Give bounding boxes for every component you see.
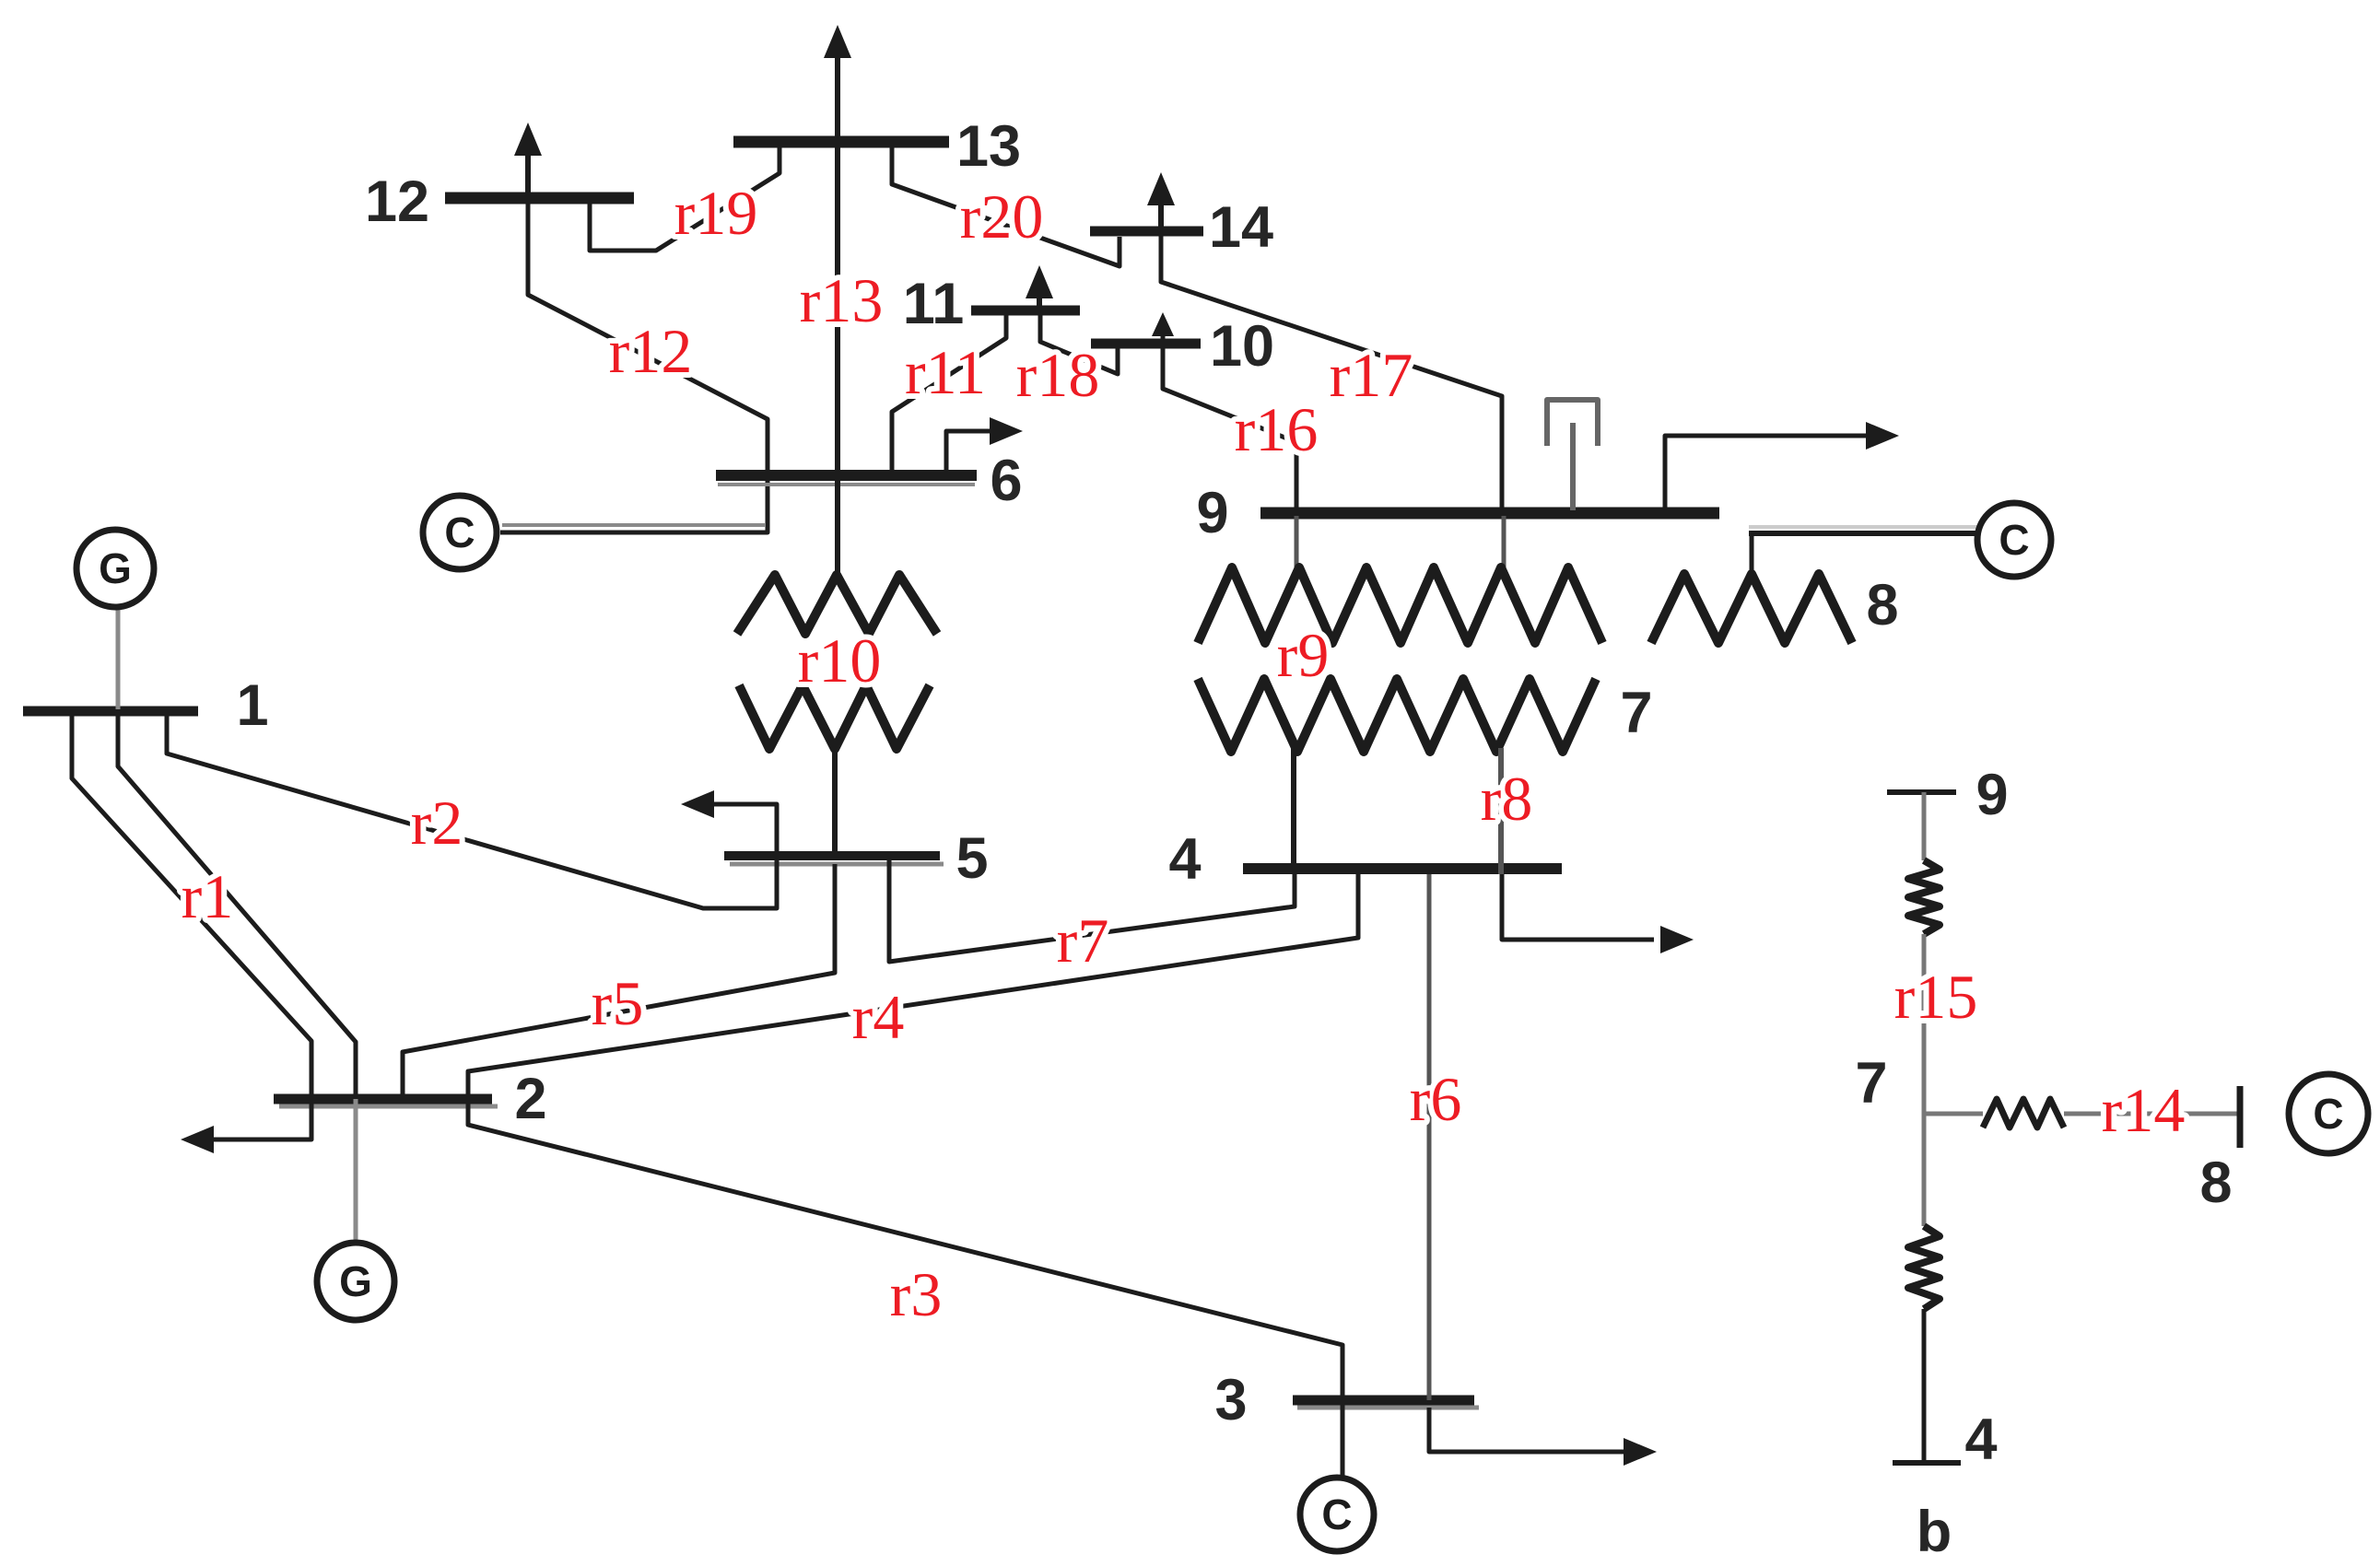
- svg-text:3: 3: [1214, 1368, 1247, 1432]
- load arrow bus 10: [1161, 332, 1166, 339]
- inset resistor r15: [1908, 860, 1940, 934]
- wire r1 (1-2) line B: [118, 711, 356, 1099]
- bus 1: [23, 707, 198, 717]
- bus 13: [733, 136, 949, 148]
- inset wire r8 to bus 4 tick: [1922, 1309, 1927, 1460]
- load arrow bus 4: [1502, 874, 1654, 940]
- svg-text:r12: r12: [609, 316, 693, 386]
- svg-text:r11: r11: [905, 337, 986, 407]
- svg-text:4: 4: [1964, 1408, 1997, 1472]
- bus 9: [1260, 508, 1719, 520]
- svg-text:9: 9: [1196, 481, 1228, 545]
- svg-text:5: 5: [956, 826, 988, 891]
- wire r16 (9-10): [1163, 344, 1296, 510]
- wire r3 stem to condenser at bus 3: [1341, 1400, 1345, 1478]
- inset bus 8 tick: [2237, 1086, 2244, 1148]
- bus 12: [445, 193, 634, 205]
- load arrow bus 3: [1429, 1408, 1635, 1452]
- wire to condenser C at bus 6: [500, 475, 768, 532]
- svg-text:r4: r4: [852, 982, 905, 1052]
- svg-text:r8: r8: [1481, 764, 1533, 834]
- transformer r10 (5-6) lower winding: [739, 685, 930, 749]
- svg-text:r2: r2: [411, 788, 463, 858]
- wire r1 (1-2) line A with load arrow bus 2: [72, 711, 311, 1139]
- svg-text:2: 2: [514, 1067, 546, 1131]
- shunt capacitor at bus 9: [1547, 400, 1598, 446]
- transformer r10 (5-6) upper winding: [835, 475, 840, 580]
- wire r13 (6-13): [835, 142, 840, 475]
- svg-text:r19: r19: [674, 178, 758, 248]
- bus 3: [1293, 1396, 1474, 1406]
- inset wire r14 to bus 8 tick: [2064, 1112, 2237, 1116]
- generator G at bus 2: [354, 1099, 358, 1243]
- load arrow bus 13: [835, 53, 840, 136]
- transformer r14 winding to bus 8: [1750, 533, 1754, 578]
- svg-text:C: C: [1999, 516, 2029, 564]
- wire r7 (4-5): [889, 860, 1295, 962]
- bus 10: [1091, 339, 1201, 349]
- svg-text:4: 4: [1168, 827, 1201, 892]
- svg-text:r9: r9: [1277, 620, 1330, 690]
- load arrow bus 14: [1158, 199, 1164, 227]
- wire r17 (9-14): [1161, 231, 1502, 510]
- svg-text:G: G: [339, 1257, 372, 1305]
- wire r18 (10-11): [1040, 310, 1118, 374]
- inset resistor r8: [1908, 1226, 1940, 1309]
- svg-text:r13: r13: [800, 265, 884, 335]
- wire transformer r8 to bus 4: [1498, 748, 1504, 874]
- bus 14: [1090, 227, 1203, 237]
- svg-text:r10: r10: [798, 625, 882, 695]
- wire r20 (13-14): [892, 147, 1120, 266]
- inset bus 4 tick: [1893, 1460, 1961, 1466]
- svg-text:12: 12: [365, 169, 429, 234]
- svg-text:r20: r20: [960, 181, 1044, 251]
- svg-text:r3: r3: [890, 1259, 943, 1329]
- wire r3 (2-3): [468, 1099, 1342, 1400]
- wire transformer r9 to bus 4: [1291, 748, 1296, 869]
- wire r11 (6-11): [892, 310, 1006, 475]
- wire to condenser C at bus 8: [1749, 531, 1979, 536]
- svg-text:r5: r5: [592, 968, 644, 1038]
- condenser C at bus 6: [423, 496, 497, 569]
- wire r6 (3-4): [1427, 874, 1432, 1400]
- svg-text:C: C: [2313, 1090, 2343, 1138]
- condenser C at bus 8: [1977, 503, 2051, 577]
- generator G at bus 1: [116, 607, 121, 709]
- load arrow bus 6: [946, 431, 995, 471]
- svg-text:6: 6: [990, 449, 1022, 513]
- wire r4 (2-4): [468, 869, 1358, 1099]
- svg-text:C: C: [1321, 1490, 1352, 1538]
- wire r5 (2-5): [403, 864, 835, 1099]
- svg-text:r1: r1: [182, 861, 234, 931]
- svg-text:7: 7: [1855, 1051, 1887, 1116]
- svg-text:r6: r6: [1410, 1064, 1462, 1134]
- svg-text:13: 13: [956, 114, 1021, 179]
- load arrow bus 5 + wire r2 (1-5): [167, 711, 777, 908]
- bus 11: [971, 306, 1080, 316]
- bus 4: [1243, 863, 1562, 874]
- bus 2: [274, 1094, 492, 1104]
- svg-text:8: 8: [1866, 573, 1898, 637]
- inset wire 9 to r15: [1922, 792, 1927, 860]
- svg-text:r17: r17: [1330, 340, 1413, 410]
- transformer lower winding (bus 7): [1198, 679, 1596, 752]
- condenser C at bus 3: [1300, 1478, 1374, 1551]
- load arrow bus 9: [1665, 436, 1876, 510]
- svg-text:14: 14: [1209, 195, 1273, 260]
- load arrow bus 12: [525, 151, 531, 193]
- svg-text:r15: r15: [1894, 962, 1978, 1032]
- load arrow bus 11: [1037, 289, 1042, 306]
- inset wire node 7 to r14: [1924, 1112, 1983, 1116]
- svg-text:r7: r7: [1057, 906, 1109, 976]
- svg-text:C: C: [444, 508, 475, 556]
- svg-text:r16: r16: [1235, 394, 1319, 464]
- inset bus 9 tick: [1887, 789, 1956, 795]
- bus 6: [716, 470, 977, 481]
- svg-text:8: 8: [2199, 1151, 2232, 1215]
- svg-text:7: 7: [1620, 681, 1652, 745]
- svg-text:11: 11: [903, 272, 965, 336]
- wire r19 (12-13): [590, 147, 780, 251]
- svg-text:b: b: [1917, 1500, 1952, 1564]
- svg-text:G: G: [99, 544, 132, 592]
- inset resistor r14: [1983, 1099, 2064, 1128]
- svg-text:r14: r14: [2102, 1075, 2186, 1145]
- svg-text:9: 9: [1976, 763, 2008, 827]
- wire r12 (6-12): [528, 198, 768, 475]
- inset condenser C: [2289, 1074, 2368, 1153]
- inset wire r15 to node 7: [1922, 934, 1927, 1114]
- inset wire node 7 to r8: [1922, 1114, 1927, 1226]
- bus 5: [724, 851, 940, 860]
- svg-text:10: 10: [1210, 314, 1274, 379]
- transformer r9 (4-9) / r8 (4-7) upper winding: [1295, 516, 1299, 571]
- svg-text:1: 1: [236, 673, 268, 738]
- svg-text:r18: r18: [1016, 340, 1100, 410]
